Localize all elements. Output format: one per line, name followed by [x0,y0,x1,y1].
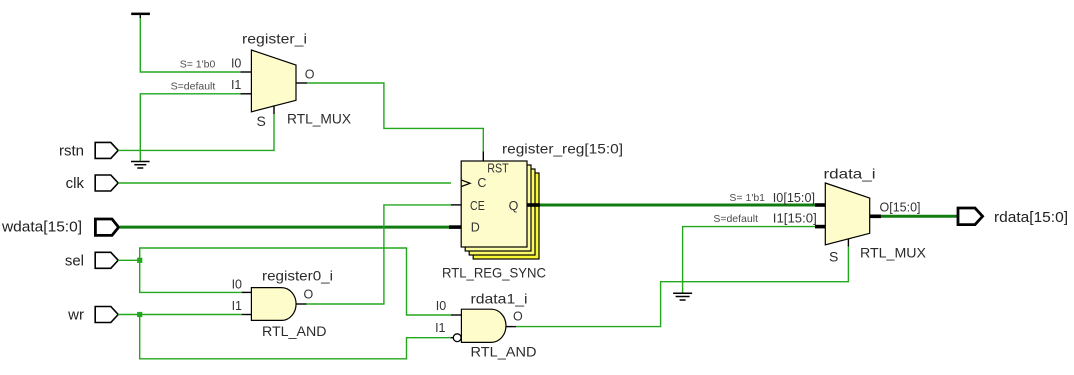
svg-text:RTL_MUX: RTL_MUX [860,245,927,261]
svg-text:Q: Q [509,199,519,213]
and gate rdata1_i (RTL_AND) [461,309,506,342]
svg-text:S=default: S=default [171,81,216,93]
clock triangle pin C [461,180,470,186]
svg-text:O[15:0]: O[15:0] [880,200,921,214]
wire sel to register0_i I0 [140,260,242,292]
wire gnd to register_i I1 [140,94,240,161]
pin I1 stub (rdata_i) [815,225,825,229]
junction (sel) [137,258,142,263]
svg-text:I1[15:0]: I1[15:0] [773,212,817,226]
svg-text:S: S [257,113,266,129]
bus wdata to register_reg D [120,226,449,229]
svg-text:RST: RST [487,161,509,175]
output port rdata[15:0] [958,208,983,225]
svg-text:rstn: rstn [59,143,84,160]
svg-text:RTL_AND: RTL_AND [262,323,327,339]
svg-text:rdata1_i: rdata1_i [471,291,528,307]
pin Q stub [527,203,540,207]
pin I1 stub (rdata1_i) [451,337,454,339]
svg-text:I0: I0 [436,299,446,313]
wire rstn to register_i S [118,114,274,150]
pin O stub (register_i) [296,82,307,84]
pin I1 stub (register_i) [241,93,252,95]
wire wr to rdata1_i I1 [140,315,451,359]
pin RST stub [482,151,484,161]
pin S stub (rdata_i) [847,239,849,247]
bus rdata_i O to output port [881,215,958,218]
wire register_i O to register_reg RST [307,83,483,151]
power supply bar (const1) [131,13,150,18]
svg-text:S: S [829,249,838,265]
input port sel [95,252,118,268]
input port clk [95,175,118,191]
pin I0 stub (rdata1_i) [451,314,461,316]
svg-text:S= 1'b1: S= 1'b1 [729,192,765,204]
wire rdata1_i O to rdata_i S [516,247,848,327]
wire clk to register_reg C [118,182,451,184]
svg-text:I0: I0 [231,56,241,70]
pin D stub [449,225,461,229]
svg-text:O: O [513,310,523,324]
svg-text:rdata[15:0]: rdata[15:0] [994,209,1068,226]
wire sel to junction [118,259,140,261]
pin I0 stub (register0_i) [242,291,252,293]
svg-text:register0_i: register0_i [262,268,333,284]
and gate register0_i (RTL_AND) [251,288,296,321]
pin O stub (rdata1_i) [506,326,516,328]
svg-text:I0: I0 [232,278,242,292]
svg-text:sel: sel [65,253,84,270]
pin I0 stub (register_i) [241,71,252,73]
svg-text:D: D [471,221,480,235]
pin O stub (register0_i) [296,303,307,305]
ground (below register_i I1) [131,162,150,169]
wire wr to register0_i I1 [140,314,242,316]
svg-text:O: O [304,287,314,301]
svg-text:wr: wr [67,307,84,324]
register register_reg[15:0] front body [461,161,527,247]
wire gnd to rdata_i I1 [683,227,815,293]
svg-text:register_i: register_i [242,31,307,47]
input port wdata[15:0] [95,219,118,235]
svg-text:C: C [477,176,486,190]
svg-text:O: O [305,67,315,81]
pin O stub (rdata_i) [870,215,881,219]
svg-text:RTL_AND: RTL_AND [471,344,537,360]
mux rdata_i (RTL_MUX) [825,183,869,245]
register stack layer 3 [469,169,535,255]
register stack layer 2 [465,165,531,251]
wire const1 to register_i I0 [140,18,240,72]
pin I1 stub (register0_i) [242,314,252,316]
svg-text:I0[15:0]: I0[15:0] [773,191,815,205]
inverter bubble pin I1 (rdata1_i) [453,334,461,342]
svg-text:register_reg[15:0]: register_reg[15:0] [502,141,623,157]
svg-text:wdata[15:0]: wdata[15:0] [1,219,82,236]
mux register_i (RTL_MUX) [251,50,296,112]
svg-text:RTL_MUX: RTL_MUX [287,111,352,127]
wire sel to rdata1_i I0 [140,248,451,315]
pin S stub (register_i) [273,105,275,114]
svg-text:S=default: S=default [713,213,758,225]
register register_reg[15:0] (RTL_REG_SYNC) stack layer 4 [473,173,539,259]
ground (below rdata_i I1) [673,293,692,300]
wire wr to junction [118,314,140,316]
pin CE stub [451,204,461,206]
svg-text:I1: I1 [232,299,242,313]
input port rstn [95,142,118,158]
wire register0_i O to register_reg CE [307,205,451,304]
svg-text:RTL_REG_SYNC: RTL_REG_SYNC [442,265,546,281]
svg-text:CE: CE [470,199,485,213]
svg-text:I1: I1 [435,321,445,335]
svg-text:I1: I1 [231,78,241,92]
input port wr [95,307,118,323]
svg-text:S= 1'b0: S= 1'b0 [180,59,216,71]
svg-text:rdata_i: rdata_i [824,166,876,182]
svg-text:clk: clk [66,175,85,192]
junction (wr) [137,312,142,317]
pin I0 stub (rdata_i) [815,203,825,207]
bus register_reg Q to rdata_i I0 [540,204,815,207]
